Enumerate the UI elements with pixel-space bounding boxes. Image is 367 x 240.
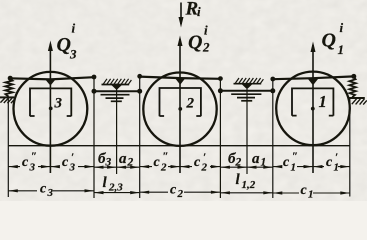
force Q1 arrow xyxy=(312,45,314,173)
ground right wall xyxy=(349,98,367,105)
dim row B line xyxy=(8,191,350,193)
svg-text:1: 1 xyxy=(308,189,314,201)
svg-text:3: 3 xyxy=(54,96,63,112)
support S1 wedge xyxy=(111,85,122,90)
wire vertical stem S1 x=116.6 xyxy=(116,89,118,174)
svg-text:1: 1 xyxy=(291,162,297,174)
support S2 ceiling line xyxy=(234,83,262,85)
svg-text:c: c xyxy=(170,182,177,197)
node support2 right lower xyxy=(270,88,275,93)
support S1 plates xyxy=(101,94,130,96)
node dot center W3 xyxy=(49,107,53,111)
svg-text:i: i xyxy=(340,20,344,35)
svg-text:i: i xyxy=(72,21,76,36)
svg-text:c: c xyxy=(22,155,29,170)
node support1 right lower xyxy=(137,89,142,94)
wire vertical ext x=94 xyxy=(93,77,95,198)
node support2 left lower xyxy=(218,88,223,93)
svg-text:c: c xyxy=(62,155,69,170)
node dot center W2 xyxy=(178,107,182,111)
node W3 right upper xyxy=(92,75,97,80)
svg-text:3: 3 xyxy=(105,157,112,169)
support S2 plates xyxy=(231,93,261,95)
svg-text:3: 3 xyxy=(29,162,36,174)
svg-text:3: 3 xyxy=(47,187,54,199)
svg-text:2: 2 xyxy=(160,162,167,174)
wedge contact W2 xyxy=(175,78,185,84)
svg-text:2: 2 xyxy=(235,157,242,169)
dim arrowheads row B xyxy=(8,189,350,194)
svg-text:3: 3 xyxy=(69,47,77,62)
svg-text:c: c xyxy=(154,155,161,170)
svg-text:c: c xyxy=(40,182,47,197)
wire vertical stem S2 x=247 xyxy=(246,89,248,174)
bracket in W2 xyxy=(160,88,201,116)
svg-text:2,3: 2,3 xyxy=(108,182,123,194)
node right wall xyxy=(351,74,356,79)
dimension rows xyxy=(8,167,350,193)
force Q3 arrow xyxy=(49,44,51,173)
support S1 ceiling line xyxy=(102,84,130,86)
wheel W3 circle xyxy=(14,72,88,146)
svg-text:1: 1 xyxy=(338,42,345,57)
wheel W1 circle xyxy=(276,72,350,146)
svg-text:1: 1 xyxy=(334,162,340,174)
wire lower bar support2 xyxy=(220,90,272,92)
node W2 right upper xyxy=(218,76,223,81)
bracket in W1 xyxy=(292,88,333,115)
svg-text:i: i xyxy=(197,4,201,19)
svg-text:1,2: 1,2 xyxy=(242,179,256,191)
svg-text:2: 2 xyxy=(202,40,210,55)
support S1 ceiling hatch xyxy=(103,79,131,84)
svg-text:Q: Q xyxy=(188,32,202,54)
wire top bar right segment xyxy=(273,76,354,79)
svg-text:i: i xyxy=(204,23,208,38)
node left wall xyxy=(8,76,13,81)
svg-text:2: 2 xyxy=(127,157,134,169)
node W2 left upper xyxy=(137,74,142,79)
svg-text:2: 2 xyxy=(186,96,195,112)
support S2 wedge xyxy=(242,84,253,89)
wire vertical ext x=349.8 xyxy=(349,98,351,197)
node dot center W1 xyxy=(311,107,315,111)
wire vertical ext x=272.8 xyxy=(272,79,274,198)
wire vertical ext x=8.3 xyxy=(7,98,9,197)
force R down arrow xyxy=(180,3,182,25)
ground left wall xyxy=(0,97,15,103)
bracket in W3 xyxy=(30,88,71,116)
svg-text:c: c xyxy=(326,155,333,170)
svg-text:a: a xyxy=(252,151,260,167)
svg-text:2: 2 xyxy=(177,188,184,200)
support S2 ceiling hatch xyxy=(235,78,263,83)
node W1 left upper xyxy=(270,77,275,82)
svg-text:3: 3 xyxy=(69,162,76,174)
wire vertical ext x=220.4 xyxy=(219,79,221,198)
spring left xyxy=(5,79,12,97)
wire top bar middle segment xyxy=(140,77,221,79)
force Q2 arrow xyxy=(179,39,181,173)
wheel W2 circle xyxy=(143,73,216,146)
svg-text:Q: Q xyxy=(57,34,71,56)
svg-text:a: a xyxy=(119,151,127,167)
svg-text:c: c xyxy=(194,155,201,170)
wire vertical ext x=139.7 xyxy=(139,76,141,198)
wire top bar left segment xyxy=(10,77,94,79)
wire lower bar support1 xyxy=(94,90,140,92)
spring right xyxy=(349,77,355,97)
dim row A line xyxy=(8,166,350,169)
wedge contact W3 xyxy=(45,80,55,86)
wedge contact W1 xyxy=(308,79,318,85)
svg-text:2: 2 xyxy=(201,162,208,174)
dim arrowheads row A xyxy=(8,165,350,169)
svg-text:Q: Q xyxy=(322,30,336,52)
node support1 left lower xyxy=(92,89,97,94)
svg-text:c: c xyxy=(301,183,308,198)
svg-text:1: 1 xyxy=(319,92,327,111)
svg-text:1: 1 xyxy=(261,157,267,169)
svg-text:c: c xyxy=(283,155,290,170)
wire base line xyxy=(8,145,350,147)
